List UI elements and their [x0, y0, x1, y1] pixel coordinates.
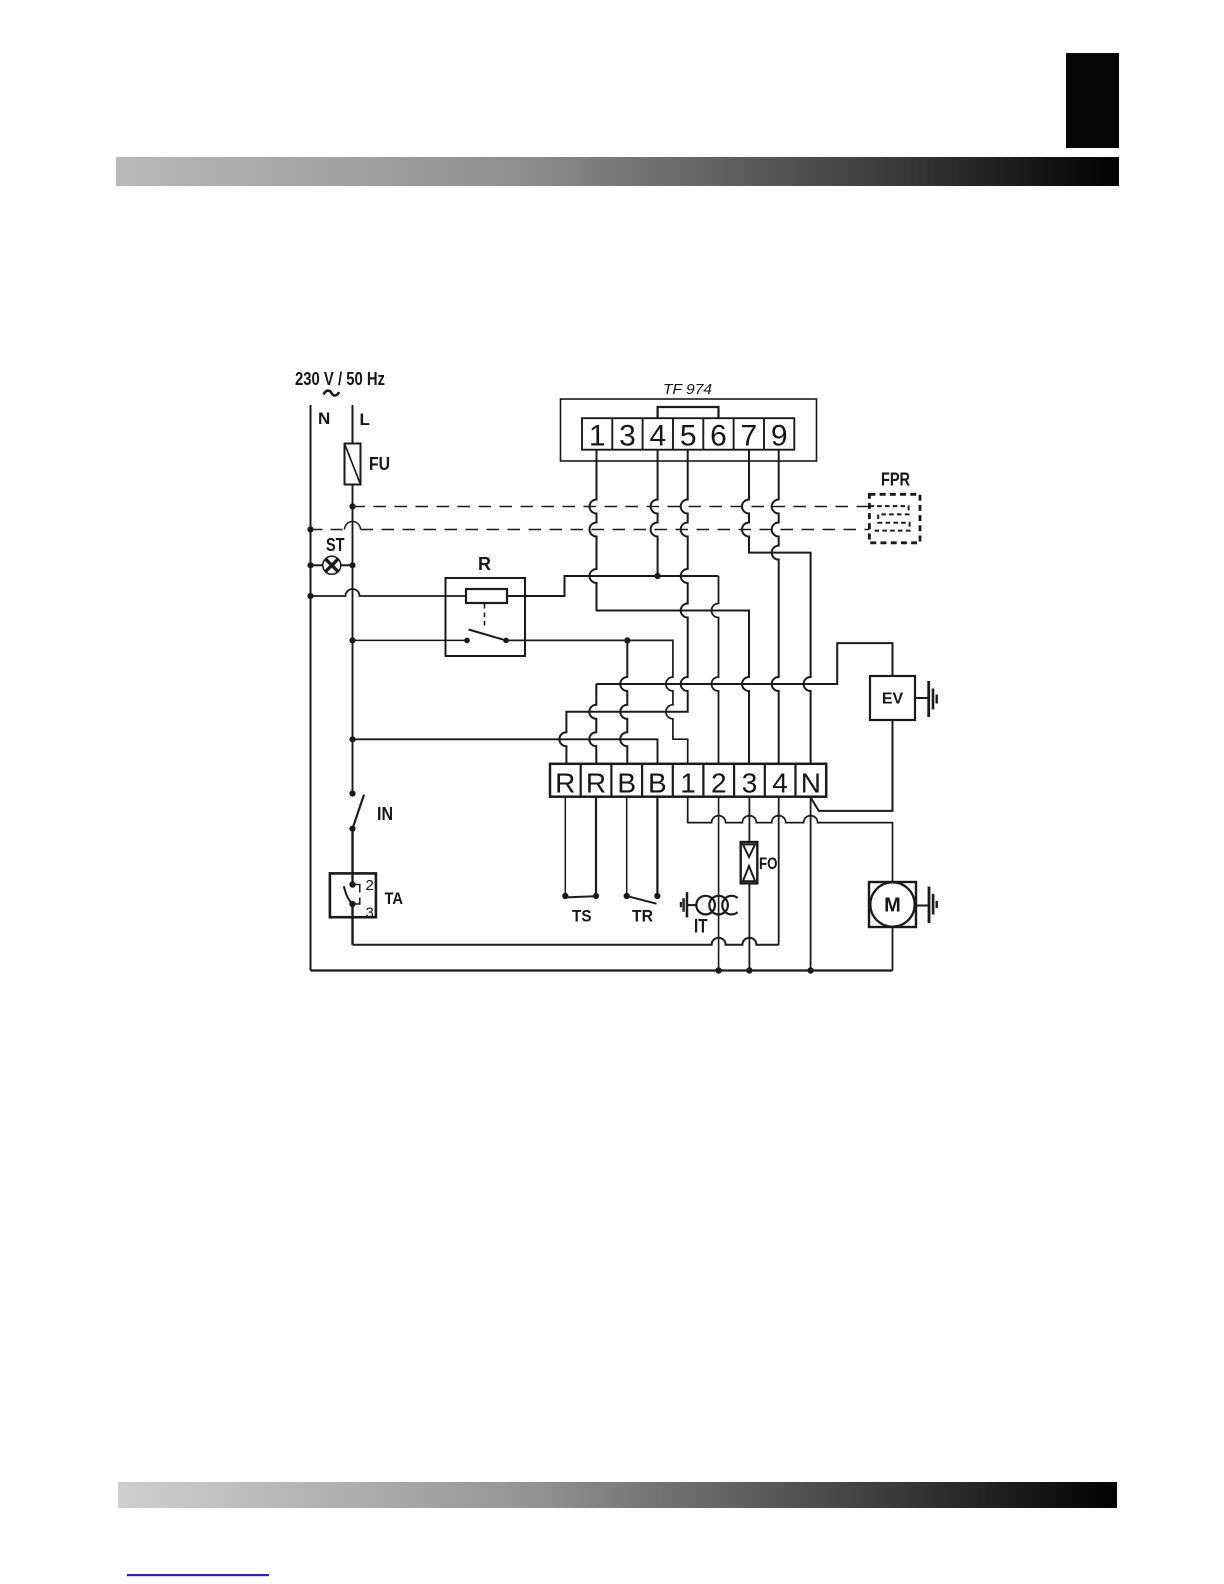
wire IN to TA: [351, 829, 353, 885]
svg-text:3: 3: [742, 768, 758, 799]
bridge pins 4-6: [658, 407, 719, 418]
svg-text:230 V / 50 Hz: 230 V / 50 Hz: [295, 369, 385, 389]
relay R box: [446, 578, 526, 656]
svg-text:6: 6: [710, 420, 727, 453]
EV earth symbol: [915, 697, 928, 699]
svg-text:N: N: [318, 409, 330, 428]
switch IN: [349, 790, 355, 796]
wire N to relay coil with hop over L: [311, 589, 467, 596]
junction N / relay feed: [307, 593, 313, 599]
svg-text:2: 2: [711, 768, 727, 799]
wire M to neutral: [892, 927, 894, 971]
wire TA to line H: [351, 904, 353, 945]
svg-text:7: 7: [740, 420, 757, 453]
wire line D R2 to valve EV: [596, 643, 892, 684]
relay mechanical link: [484, 604, 486, 628]
svg-text:IT: IT: [694, 917, 708, 938]
wire FO to neutral: [748, 883, 750, 970]
junction FO / neutral: [746, 967, 752, 973]
wire EV return to terminal N: [811, 720, 893, 811]
safety thermostat TS legs: [564, 797, 566, 893]
FPR probe spiral: [869, 506, 909, 530]
wire line H TA to terminal 4: [353, 938, 779, 945]
junction line A / pin4 wire: [655, 573, 661, 579]
TA pin 3: [349, 901, 355, 907]
junction IT / neutral: [715, 967, 721, 973]
svg-text:FPR: FPR: [881, 470, 910, 490]
svg-text:TR: TR: [632, 907, 653, 926]
relay switch blade: [469, 630, 507, 641]
controller TF974 outer box: [561, 399, 817, 461]
svg-text:R: R: [478, 554, 491, 574]
svg-text:M: M: [884, 895, 901, 917]
wire terminal R2 riser: [589, 684, 596, 764]
flame probe FPR dashed box: [869, 494, 920, 543]
svg-text:TA: TA: [385, 889, 404, 908]
relay coil: [466, 589, 507, 603]
wire line C relay switch to terminal 1: [506, 640, 688, 764]
svg-text:4: 4: [772, 768, 788, 799]
IT earth symbol: [688, 904, 697, 906]
bottom gradient rule: [118, 1482, 1117, 1508]
wire terminal 4 leg to line H: [778, 797, 780, 945]
M earth symbol: [916, 905, 929, 907]
probe line hop over L: [345, 522, 361, 530]
svg-text:TS: TS: [572, 907, 592, 926]
TR blade: [628, 896, 657, 903]
junction terminal N leg / neutral: [807, 967, 813, 973]
junction line C / terminal B1 branch: [624, 637, 630, 643]
svg-text:N: N: [801, 768, 821, 799]
svg-text:FU: FU: [369, 454, 390, 474]
svg-text:B: B: [617, 768, 636, 799]
motor M box: [869, 882, 916, 927]
wire terminal N leg to neutral: [810, 797, 812, 971]
svg-text:2: 2: [366, 877, 374, 894]
wire line F L to terminal B2: [353, 739, 658, 764]
wire line G terminal 1 to motor M: [688, 797, 893, 882]
header logo black block: [1066, 53, 1119, 148]
AC tilde symbol: [324, 391, 340, 396]
junction L / probe line upper: [349, 503, 355, 509]
svg-text:EV: EV: [882, 691, 904, 708]
wire terminal 2 to ignition transformer to neutral: [718, 797, 720, 971]
TA jumper bracket: [353, 885, 360, 905]
wire pin1 / line B to terminal 3: [590, 450, 750, 764]
room thermostat TA box: [330, 873, 376, 917]
solenoid valve EV box: [870, 676, 915, 720]
ignition transformer IT coils: [696, 896, 715, 915]
top gradient rule: [116, 157, 1119, 186]
indicator lamp ST: [307, 562, 313, 568]
motor M circle: [870, 882, 914, 926]
wire branch to terminal B1: [620, 640, 627, 764]
wire L to relay switch: [353, 639, 468, 641]
svg-text:5: 5: [680, 420, 697, 453]
svg-text:1: 1: [589, 420, 606, 453]
svg-text:ST: ST: [326, 535, 345, 555]
dashed flame probe line lower right part: [361, 529, 870, 531]
wire pin9 to terminal 4: [772, 450, 779, 764]
TR contacts: [624, 893, 630, 899]
svg-text:1: 1: [680, 768, 696, 799]
svg-text:R: R: [555, 768, 575, 799]
svg-text:3: 3: [366, 905, 374, 922]
wire pin7 to terminal N: [742, 450, 811, 764]
svg-text:9: 9: [771, 420, 788, 453]
svg-text:FO: FO: [759, 854, 778, 873]
wire bottom neutral return: [311, 969, 893, 971]
svg-text:3: 3: [619, 420, 636, 453]
photoresistor FO: [741, 842, 758, 883]
wire N vertical bus: [310, 405, 312, 971]
TF974 pin numbers: [589, 420, 788, 453]
svg-text:B: B: [648, 768, 667, 799]
wire line A drop to terminal 2: [712, 576, 719, 764]
junction L / line C: [349, 637, 355, 643]
svg-text:4: 4: [649, 420, 666, 453]
dashed flame probe line lower: [311, 529, 345, 531]
svg-text:IN: IN: [377, 804, 393, 824]
TS contacts: [562, 893, 568, 899]
footer link underline: [127, 1574, 269, 1576]
svg-text:TF 974: TF 974: [663, 381, 712, 398]
TA blade: [344, 886, 353, 904]
wire terminal 3 to photoresistor FO: [748, 797, 750, 842]
wire L upper: [352, 405, 354, 444]
svg-text:R: R: [586, 768, 606, 799]
wire pin5 / line E to terminal R1: [559, 450, 687, 764]
relay switch contacts: [464, 638, 470, 644]
svg-text:L: L: [360, 410, 370, 429]
fuse FU: [345, 444, 361, 485]
junction L / line F: [349, 736, 355, 742]
terminal strip labels: [555, 768, 821, 799]
dashed flame probe line upper: [353, 506, 870, 508]
TS blade: [567, 896, 595, 897]
junction N / probe line lower: [307, 526, 313, 532]
wire L middle: [352, 485, 354, 794]
terminal strip RRBB1234N: [550, 764, 826, 797]
TA pin 2: [349, 881, 355, 887]
boiler thermostat TR legs: [626, 797, 628, 893]
wire line A coil to terminal 2 drop: [507, 576, 719, 596]
wire pin4 to line A: [651, 450, 658, 576]
TF974 pin row: [582, 418, 794, 450]
